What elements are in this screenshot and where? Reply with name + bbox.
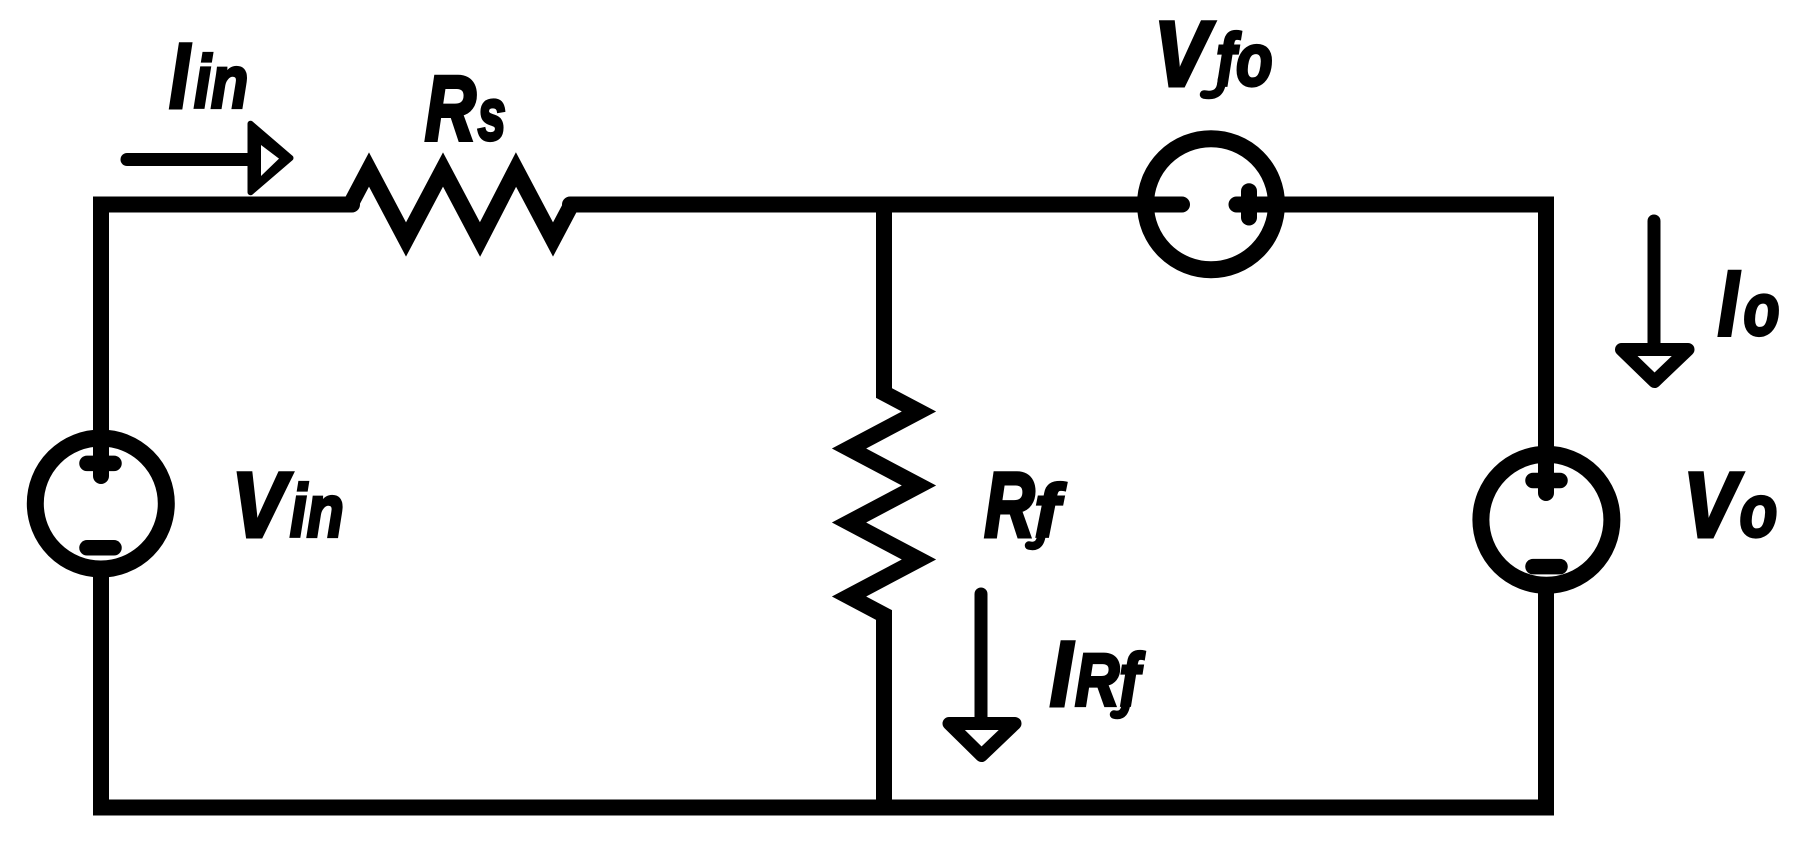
label IRf: f descender tail xyxy=(1114,699,1127,715)
wire: top-left horizontal + left vertical down into Vin xyxy=(101,205,352,477)
Vo minus bar xyxy=(1533,559,1560,575)
wire: Vfo right side to top-right corner down into Vo xyxy=(1237,205,1547,494)
svg-text:s: s xyxy=(478,75,506,157)
svg-text:o: o xyxy=(1740,470,1778,553)
current arrow Iin head solid triangle xyxy=(251,124,291,193)
label Vfo: f descender tail xyxy=(1204,79,1222,95)
svg-text:I: I xyxy=(1718,252,1740,355)
Vo plus bar xyxy=(1533,473,1560,489)
current arrow Iin head white inset triangle xyxy=(261,145,279,176)
svg-text:fo: fo xyxy=(1216,20,1273,102)
Vin minus bar xyxy=(87,540,114,556)
svg-text:V: V xyxy=(1154,3,1215,105)
Vin plus bar xyxy=(87,456,114,472)
wire: bottom rail from Vin bottom to Vo bottom xyxy=(101,568,1546,808)
voltage source Vin circle xyxy=(35,438,166,569)
svg-text:R: R xyxy=(425,58,476,160)
svg-text:V: V xyxy=(232,454,293,557)
wire: middle vertical with resistor R_f zigzag xyxy=(849,205,919,808)
svg-text:I: I xyxy=(169,24,191,127)
svg-text:in: in xyxy=(290,471,344,553)
voltage source Vo circle xyxy=(1481,454,1612,585)
svg-text:I: I xyxy=(1050,623,1074,725)
Vfo plus bar (vertical) xyxy=(1241,191,1257,217)
svg-text:R: R xyxy=(984,454,1034,557)
svg-text:V: V xyxy=(1683,454,1743,556)
wire: top middle (Rs right side to Vfo left stub) xyxy=(570,197,1182,213)
resistor R_s zigzag xyxy=(351,170,572,240)
current arrow IRf shaft xyxy=(975,594,988,718)
current arrow IRf open head xyxy=(949,724,1015,756)
voltage source Vfo circle xyxy=(1146,139,1277,270)
svg-text:o: o xyxy=(1744,269,1780,352)
current arrow Io shaft xyxy=(1648,221,1661,348)
svg-text:in: in xyxy=(194,42,248,124)
current arrow Io open head xyxy=(1622,350,1689,382)
current arrow Iin shaft xyxy=(127,153,250,166)
svg-text:Rf: Rf xyxy=(1075,639,1145,722)
label Rf: f descender tail xyxy=(1029,530,1042,546)
